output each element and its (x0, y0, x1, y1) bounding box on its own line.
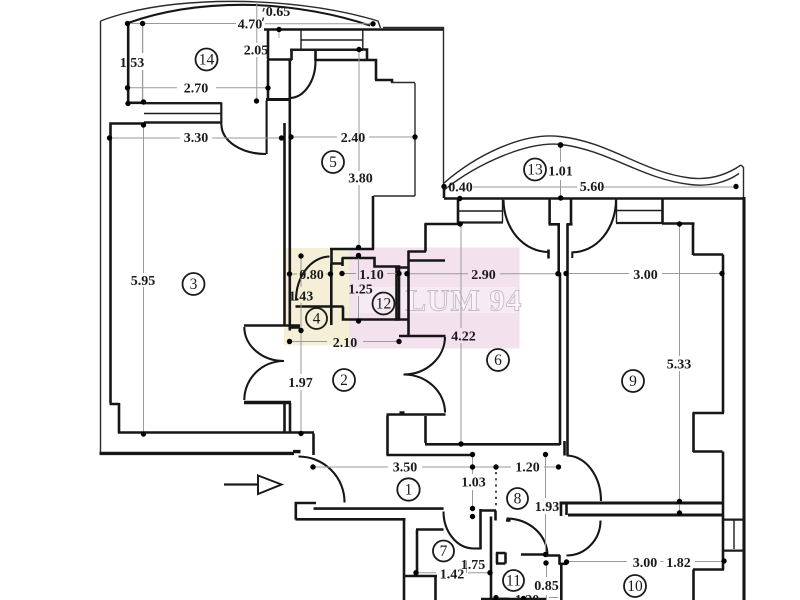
room label 4 (306, 308, 327, 329)
wall: room9 right wall x723 upper (722, 255, 725, 414)
wire: balcony 13 right thin edge (741, 165, 744, 197)
svg-text:5: 5 (329, 154, 337, 171)
door: room6 double door leaf bottom (404, 375, 446, 413)
room label 8 (507, 488, 528, 509)
wall: lower corridor wall B y519 (296, 503, 406, 520)
svg-text:9: 9 (629, 373, 637, 390)
wall: room9 step top-right (662, 224, 723, 256)
watermark text LUM 94 (357, 287, 517, 313)
svg-text:2.70: 2.70 (184, 82, 209, 97)
room label 10 (624, 575, 646, 597)
wire: thin neighbour line x415 (374, 83, 416, 197)
wire: balcony 13 outer top curve (444, 136, 741, 183)
wall: double door room3 bottom wall y403.5 (244, 401, 291, 404)
room label 7 (433, 541, 454, 562)
wall: inner line x289.5 from 117 to 325 (288, 60, 291, 432)
wall: hall step x425.5 y224-253 (408, 224, 459, 252)
svg-text:1.20: 1.20 (515, 461, 540, 476)
svg-text:1.20: 1.20 (515, 593, 540, 600)
room label 3 (183, 273, 205, 295)
svg-text:1.03: 1.03 (461, 476, 486, 491)
window: room10 right-wall window (724, 520, 744, 551)
wall: passage walls below balcony-14 door x267/x289 (267, 60, 270, 100)
room label 13 (524, 159, 546, 181)
dimension line 1.43 x301 (300, 256, 302, 331)
wall: room10 left wall x560.5 lower (560, 565, 563, 600)
svg-text:3: 3 (190, 276, 198, 293)
watermark pink block (349, 248, 520, 349)
room label 6 (487, 349, 509, 371)
wall: corridor wall x291.5 under window (290, 50, 293, 60)
wall: room6 double-door top wall y336 (399, 335, 446, 338)
room label 2 (333, 369, 355, 391)
dimension line 0.80 y274 (290, 273, 331, 275)
wall: top wall of room6 y260.5 (409, 259, 445, 262)
window: hall window below balcony13 (458, 221, 503, 223)
dimension line 3.30 y138 (110, 137, 282, 139)
wall: room2/6 niche box x396 (395, 267, 410, 320)
svg-text:2.10: 2.10 (333, 336, 358, 351)
dimension line 0.85 x546.5 (467, 561, 547, 600)
wall: room 3/2 lower vertical wall x284.5 (283, 404, 286, 434)
wall: room10 left-lower x693.5 (692, 570, 695, 600)
wall: room5/6 wall x359.5 vertical stub (330, 248, 374, 251)
door: room9 door arc (567, 456, 602, 502)
wall: room7 left inner wall x404.5 (403, 520, 406, 600)
wall: room8 bottom wall y554.5 (521, 553, 547, 556)
svg-text:0.85: 0.85 (534, 579, 559, 594)
wall: door10 leaf x565 (547, 555, 560, 565)
door: entrance door arc (299, 457, 345, 503)
svg-text:13: 13 (527, 162, 543, 179)
dimension line 2.05 vertical x257 (256, 2, 258, 100)
dimension line 3.00b/1.82 y561.5 (567, 561, 725, 563)
wall: room7 tub left x418 (416, 530, 419, 573)
wall: corridor second wall y453.5 (387, 413, 473, 455)
dimension line 3.80 x359 (358, 50, 360, 248)
wire: outer thin boundary left of balcony 14 (100, 21, 102, 455)
dashed opening corridor1/hall8 x496 (495, 472, 497, 509)
svg-text:0.65: 0.65 (266, 5, 291, 20)
svg-text:LUM 94: LUM 94 (405, 283, 522, 318)
svg-text:1.10: 1.10 (359, 268, 384, 283)
wire: balcony 14 outer top curve (101, 1, 381, 28)
dimension line 1.42 y572.7 (416, 572, 490, 574)
wall: top exterior wall rooms 14/5 (264, 28, 443, 31)
wall: room11 top nub y520.5 (496, 511, 511, 521)
wall: room 3 left wall (109, 123, 112, 404)
wall: entrance right jamb x313.5 (312, 434, 315, 456)
wall: twin wall upper right x569.5 y223-272 (570, 198, 573, 224)
door: room3 double door leaf top (244, 327, 284, 361)
wall: jamb x315.5 (314, 51, 317, 62)
svg-text:6: 6 (494, 352, 502, 369)
wall: room9 right lower x693.5 (692, 413, 695, 452)
door: room5 corner door arc (290, 61, 316, 98)
wall: outer right wall x744 (742, 197, 745, 600)
wall: room 3 bottom-left step (110, 403, 315, 433)
wall: door10 threshold wall y563.5 (559, 562, 567, 565)
wall: divider cap x561 (561, 502, 567, 517)
svg-text:14: 14 (199, 52, 215, 69)
door: room6 double door leaf top (404, 337, 446, 375)
door: room6 upper door arc from hall (572, 200, 616, 258)
wire: thin outline top-middle (neighbour) right of wall to x444 (383, 28, 444, 186)
wall: rooms7/11 divider x491 (490, 517, 493, 600)
svg-text:12: 12 (376, 296, 392, 313)
dimension line 2.40 y137 (291, 136, 415, 138)
dimension line 2.90 y273.7 (407, 273, 558, 275)
svg-text:2.05: 2.05 (244, 44, 269, 59)
wall: balcony 14 inner parapet curve (128, 5, 370, 26)
wall: left vertical wall between 14-door and room3 x268 (267, 30, 270, 59)
wall: corridor wall y510.5 right of door7 x480-495 (480, 509, 496, 550)
wall: room4 right wall x331.5 upper nub (331, 250, 342, 325)
dimension line 0.40/5.60 y187 (444, 186, 736, 188)
wall: top wall right wing y198.5 (444, 197, 743, 200)
wall: sill wall y59.5 left part (267, 58, 292, 61)
svg-text:4.70: 4.70 (238, 18, 263, 33)
dimension line 5.95 x143.5 (143, 125, 145, 434)
dimension line 1.01 x557 (560, 147, 562, 197)
svg-text:1.93: 1.93 (535, 500, 560, 515)
wall: room7 bottom wall y576.5 (405, 575, 438, 578)
wall: main vertical wall rooms 3|5,2 x284.5 upper (283, 123, 286, 325)
svg-text:11: 11 (506, 573, 521, 590)
wall: room 12 left wall upper (341, 258, 344, 267)
wall: room6 left lower wall x425.5 (424, 416, 427, 443)
svg-text:1: 1 (405, 482, 413, 499)
wall: room 12 outline (342, 258, 399, 320)
wall: room5 bottom wall y250 x345-374 (372, 196, 375, 249)
window: room14/room3 window (144, 103, 222, 122)
svg-text:10: 10 (627, 578, 643, 595)
dimension line 1.97 x301 (300, 331, 302, 434)
wall: room6 left wall x409 (407, 251, 410, 335)
svg-text:0.80: 0.80 (299, 268, 324, 283)
svg-text:3.00: 3.00 (633, 268, 658, 283)
watermark yellow block (284, 248, 349, 346)
svg-text:5.95: 5.95 (131, 274, 156, 289)
wall: twin wall upper left x559 y223-272 (557, 224, 560, 273)
svg-text:7: 7 (440, 543, 448, 560)
svg-text:1.43: 1.43 (289, 290, 314, 305)
dimension line 1.03 x472.5 (472, 455, 474, 508)
dimension line 1.53 vertical x128 (142, 25, 144, 100)
dimension tick at 279 (278, 29, 280, 38)
dimension line 1.20b y597.5 (496, 597, 558, 599)
wall: room7 tub top y529.5 (416, 528, 444, 531)
wall: door9upper leaf nub x548.5 y249-258 (547, 250, 550, 259)
svg-text:5.33: 5.33 (667, 358, 692, 373)
entrance arrow (224, 476, 282, 495)
dimension line 5.33 x679.5 (679, 224, 681, 513)
wall: hall window left cap x458 (457, 199, 460, 223)
svg-text:3.80: 3.80 (348, 172, 373, 187)
dimension line 4.22 x461 (460, 225, 462, 444)
wall: room 3 top-left wall y123.5 (110, 122, 146, 125)
door: room3 double door leaf bottom (244, 361, 284, 400)
svg-text:1.53: 1.53 (120, 56, 145, 71)
dimension line 1.93 x545.5 (545, 455, 547, 554)
wall: sill y60 right of door-5 arc (316, 59, 368, 62)
wall: hall/9 jamb wall x551.5 y198-224 (549, 198, 573, 224)
svg-text:1.42: 1.42 (440, 568, 465, 583)
door: room7 arc landing nub (474, 547, 481, 549)
wall: door9 jamb x564.5 (563, 441, 566, 456)
svg-text:2: 2 (340, 372, 348, 389)
wall: double door room3 top wall y325.5 (244, 324, 300, 327)
svg-text:4.22: 4.22 (451, 330, 476, 345)
svg-text:3.30: 3.30 (184, 131, 209, 146)
svg-text:0.40: 0.40 (448, 181, 473, 196)
door: room11 door arc (507, 519, 548, 556)
svg-text:4: 4 (313, 311, 321, 328)
dimension line 1.10 y273.5 (342, 273, 399, 275)
wall: corner step y102 x128-144 (127, 102, 146, 105)
wall: room4 top nub y256.5 (291, 326, 300, 329)
svg-text:1.01: 1.01 (548, 165, 573, 180)
wall: divider 9/10 line B y515 (568, 514, 723, 517)
door: room4 door arc (296, 257, 330, 301)
svg-text:1.82: 1.82 (666, 556, 691, 571)
wall: room11 bottom wall y598 (481, 598, 546, 600)
dimension line 2.70 y88 (128, 87, 269, 89)
svg-text:5.60: 5.60 (580, 180, 605, 195)
wire: balcony 13 inner top curve (444, 144, 739, 190)
svg-text:3.00: 3.00 (633, 556, 658, 571)
svg-text:1.97: 1.97 (288, 376, 313, 391)
wall: left jamb balcony14 door / wall x128 (127, 23, 130, 104)
wall: room9 window right cap x662.5 (661, 199, 664, 223)
wall: room6 double-door bottom wall y414 (387, 413, 446, 416)
wall: 0.40 jamb x444 (443, 185, 446, 198)
svg-text:1.25: 1.25 (348, 283, 373, 298)
dimension line 4.70 (128, 23, 372, 25)
wall: room10 right wall x723 y451-520 (722, 452, 725, 571)
wall: zigzag under window right (360, 50, 393, 83)
room label 9 (622, 370, 644, 392)
room label 11 (503, 570, 524, 591)
door: room10 door arc (567, 521, 601, 556)
door: room7 door arc (444, 512, 475, 549)
wall: room10 top-right step y451.5 (693, 450, 723, 453)
window: room9 window (616, 222, 663, 224)
wall: room10 step y569.5 (693, 568, 724, 571)
wall: room6 right wall x560 (559, 273, 562, 446)
dots: dimension endpoints (125, 21, 130, 26)
dimension line 2.10 y341.5 (290, 341, 400, 343)
svg-text:2.40: 2.40 (341, 131, 366, 146)
dimension line 1.25 x358.5 (358, 256, 360, 322)
room label 5 (322, 151, 344, 173)
svg-text:8: 8 (514, 491, 522, 508)
room label 1 (397, 478, 419, 500)
door: balcony13 door arc (504, 200, 549, 252)
svg-text:2.90: 2.90 (471, 268, 496, 283)
wall: room11 Z-nub (496, 553, 506, 564)
wall: corridor top wall y443.5 (425, 443, 560, 446)
wall: room 4 bottom wall y306 (296, 305, 344, 308)
wall: below room7 vertical x435.5 (434, 577, 437, 600)
dimension line 3.00 y273.5 (566, 273, 722, 275)
room label 14 (196, 49, 218, 71)
wall: sill at bottom of 14-door arc y98.5 (266, 98, 291, 101)
window: top wall room5 window (290, 49, 363, 52)
dimension ticks 0.65 (262, 8, 264, 21)
wall: divider 9/10 line A y503 (560, 502, 723, 505)
svg-text:1.75: 1.75 (461, 558, 486, 573)
wall: room9 step y413 x693-724 (693, 412, 725, 415)
door: balcony14 to room3 arc (222, 101, 267, 155)
wall: room9 left wall x568 (566, 224, 569, 456)
wall: exterior bottom wall left wing (100, 452, 301, 454)
svg-text:3.50: 3.50 (393, 461, 418, 476)
wall: lower corridor wall A y503.5 (295, 503, 444, 509)
room label 12 (373, 293, 395, 315)
dimension line 3.50/1.20 y467 (313, 466, 559, 468)
